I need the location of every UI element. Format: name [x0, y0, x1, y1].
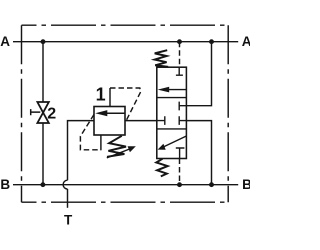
wire: port A rail — [13, 41, 238, 43]
node: B rail / valve2 junction — [40, 182, 45, 187]
svg-text:1: 1 — [96, 85, 106, 105]
box1 blocked port stub — [176, 67, 183, 75]
enclosure dash-dot border left — [21, 25, 23, 202]
node: A rail / spool feed junction — [209, 39, 214, 44]
svg-text:A: A — [242, 34, 250, 49]
box1 flow arrow — [162, 89, 186, 91]
relief valve top pilot stub — [109, 88, 111, 107]
relief valve 1 arrow — [106, 112, 125, 114]
wire: valve 2 riser B-side — [42, 123, 44, 185]
spool valve box divider 2 — [157, 128, 187, 130]
wire: port B rail — [13, 184, 238, 186]
wire: relief valve outlet to spool valve — [125, 120, 157, 122]
spool valve box divider 1 — [157, 97, 187, 99]
enclosure dash-dot border top — [22, 24, 229, 26]
box3 diagonal flow arrow — [163, 136, 186, 147]
wire: valve 2 riser A-side — [42, 42, 44, 102]
spool valve outer body — [157, 67, 187, 158]
spool valve bottom spring — [156, 159, 167, 177]
pilot line dashed: relief top loop to outlet — [110, 88, 141, 120]
box2 right-top blocked port — [179, 102, 186, 111]
pilot line dashed: relief left loop to drain — [80, 115, 101, 150]
relief valve adjustable spring — [107, 136, 126, 157]
box2 left blocked port — [157, 116, 165, 125]
svg-text:2: 2 — [47, 106, 56, 123]
wire: T branch horizontal to relief valve — [67, 189, 69, 208]
relief valve 1 body — [94, 107, 125, 136]
node: A rail / valve2 junction — [41, 39, 46, 44]
wire: spool valve right port to A rail — [186, 42, 211, 106]
shut-off valve 2 bowtie — [37, 102, 48, 123]
node: B rail / pilot junction — [177, 182, 182, 187]
svg-text:A: A — [0, 34, 10, 49]
svg-text:B: B — [242, 177, 250, 192]
svg-text:T: T — [64, 212, 73, 227]
enclosure dash-dot border bottom — [22, 201, 229, 203]
wire: spool valve right lower port to B rail — [186, 121, 211, 185]
node: A rail / pilot junction — [177, 39, 182, 44]
box2 right-bottom blocked port — [179, 116, 186, 125]
relief valve drain stub — [100, 135, 102, 150]
enclosure dash-dot border right — [227, 25, 229, 202]
spool valve top spring — [155, 50, 169, 67]
box3 blocked port stub — [176, 148, 185, 159]
pilot line dashed from A rail to spool top — [179, 42, 181, 67]
pilot line dashed from spool bottom to B rail — [179, 159, 181, 185]
node: B rail / spool feed junction — [209, 182, 214, 187]
valve 2 side tick — [31, 109, 41, 115]
relief spring adjustment arrow — [107, 149, 131, 158]
svg-text:B: B — [0, 177, 10, 192]
